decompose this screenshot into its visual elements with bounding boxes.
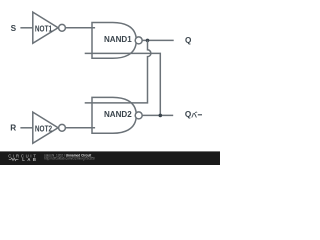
inverter NOT1 bubble [59,24,66,31]
footer CircuitLab logo resistor zigzag [9,158,19,160]
svg-text:R: R [10,124,16,133]
wire Qbar feedback to NAND1 input B (horizontal, then vertical) [85,53,161,115]
wire Q feedback to NAND2 input A (vertical with hop, then horizontal) [85,40,151,103]
junction node Qbar [159,114,163,118]
wire NAND1 output to Q [142,39,173,41]
inverter NOT1 triangle [33,12,58,43]
svg-text:S: S [11,24,17,33]
junction node Q [146,39,150,43]
svg-text:NOT2: NOT2 [35,124,53,133]
footer attribution bar [0,151,220,165]
svg-text:NOT1: NOT1 [35,24,53,33]
node Qbar label katakana BA stroke right [194,113,196,118]
wire R to NOT2 input [20,127,32,129]
wire S to NOT1 input [20,27,32,29]
nand gate NAND1 body [92,23,136,59]
node Qbar label katakana long vowel bar [198,114,202,116]
nand gate NAND2 body [92,97,136,133]
nand gate NAND1 bubble [135,37,142,44]
svg-text:Q: Q [185,36,192,45]
svg-text:LAB: LAB [22,157,36,162]
wire NOT1 output to NAND1 input A [66,27,96,29]
wire NAND2 output to Qbar [142,114,173,116]
inverter NOT2 bubble [59,124,66,131]
svg-text:Q: Q [185,110,192,119]
node Qbar label katakana BA dakuten marks [195,112,197,113]
svg-text:http://circuitlab.com/c/2mkog7: http://circuitlab.com/c/2mkog75x2f5/ [44,157,95,161]
nand gate NAND2 bubble [135,112,142,119]
svg-text:NAND1: NAND1 [104,35,132,44]
inverter NOT2 triangle [33,112,58,143]
svg-text:NAND2: NAND2 [104,110,132,119]
wire NOT2 output to NAND2 input B [66,127,96,129]
node Qbar label katakana BA stroke left [192,113,194,117]
